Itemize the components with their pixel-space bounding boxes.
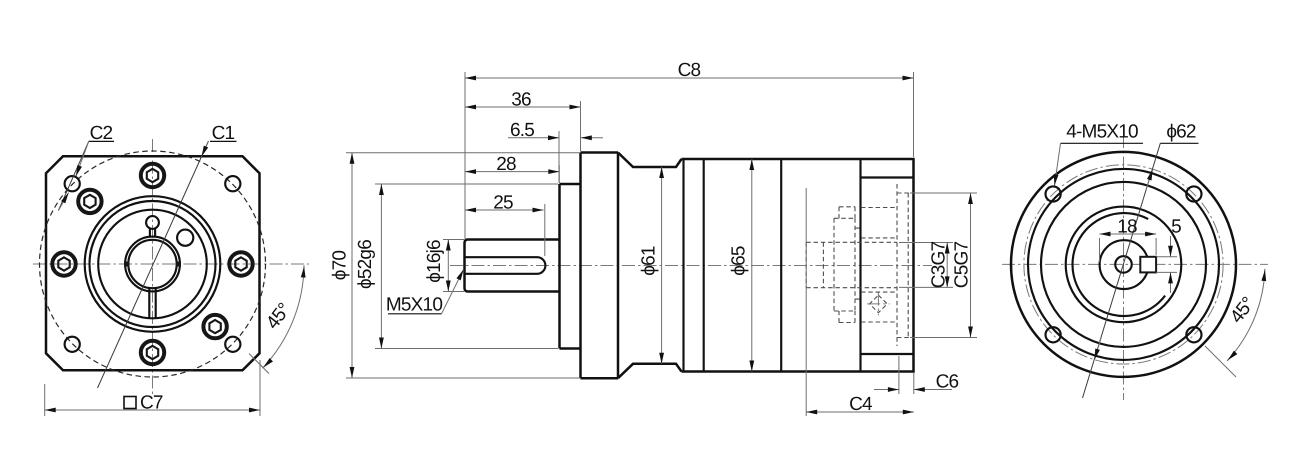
- motor shaft bore: [806, 242, 897, 287]
- dimension 6.5: [508, 120, 603, 183]
- center hole: [1115, 256, 1132, 273]
- bore chamfer tick left: [124, 262, 129, 267]
- bolt lower-right: [203, 315, 226, 338]
- axis centerline: [450, 265, 932, 267]
- bolt top: [141, 164, 164, 187]
- label C1: [210, 123, 237, 144]
- shaft keyway slot: [465, 257, 546, 274]
- bore inner r=24.2: [128, 240, 176, 288]
- bore chamfer tick right: [176, 262, 181, 267]
- mounting hole UR: [1186, 186, 1201, 201]
- dimension phi52g6: [355, 184, 558, 349]
- body division lines: [682, 159, 684, 372]
- hub circle: [1100, 240, 1149, 289]
- dimension C8: [465, 60, 914, 239]
- clamp screw (diamond): [870, 295, 888, 313]
- flange plate: [581, 153, 619, 379]
- keyway box: [1140, 257, 1156, 273]
- label 4-M5X10 with leader: [1055, 122, 1144, 186]
- label C2 with leader to corner hole: [58, 123, 114, 211]
- svg-text:C3G7: C3G7: [929, 242, 950, 289]
- bolt left: [52, 252, 75, 275]
- 45 degree dimension front view: [249, 265, 304, 373]
- output shaft: [465, 240, 560, 292]
- dimension phi65: [729, 159, 752, 372]
- bolt upper-left: [78, 190, 101, 213]
- keyway slot bottom: [148, 289, 150, 319]
- mounting hole UL: [1046, 186, 1061, 201]
- recess circle: [1028, 169, 1219, 360]
- hidden internals (dashed): [806, 184, 913, 346]
- bolt circle phi62 dash-dot: [1024, 165, 1223, 364]
- top small hole r=6.4 with neck: [146, 216, 159, 229]
- circle r=54.3: [98, 210, 207, 319]
- svg-text:ϕ52g6: ϕ52g6: [355, 240, 376, 289]
- svg-text:ϕ61: ϕ61: [639, 246, 660, 276]
- centerline vertical: [1123, 135, 1125, 400]
- mounting hole LR: [1186, 327, 1201, 342]
- svg-text:ϕ70: ϕ70: [330, 251, 351, 281]
- svg-text:ϕ65: ϕ65: [729, 246, 750, 276]
- svg-text:C7: C7: [140, 393, 163, 414]
- dimension C6: [874, 356, 959, 394]
- input recess edges: [861, 176, 914, 178]
- svg-text:36: 36: [511, 90, 531, 111]
- dimension 18: [1100, 217, 1157, 263]
- input bore C5 hidden: [897, 184, 914, 346]
- svg-text:25: 25: [493, 193, 513, 214]
- svg-text:28: 28: [496, 154, 516, 175]
- corner hole top-left: [65, 176, 80, 191]
- partial arc: [1073, 213, 1166, 316]
- diagonal section line C1: [98, 141, 209, 388]
- dimension C3G7: [899, 242, 953, 289]
- corner hole bottom-left: [65, 337, 80, 352]
- dimension phi61: [639, 167, 662, 364]
- svg-text:ϕ62: ϕ62: [1166, 122, 1196, 143]
- svg-text:C8: C8: [678, 60, 701, 81]
- svg-text:C6: C6: [936, 372, 959, 393]
- outer circle phi70: [1011, 152, 1236, 377]
- taper to neck: [618, 153, 682, 379]
- 45 degree dimension rear view: [1205, 269, 1265, 377]
- main body outline: [682, 159, 914, 372]
- bolt bottom: [141, 341, 164, 364]
- svg-text:5: 5: [1171, 217, 1181, 238]
- svg-text:C5G7: C5G7: [952, 242, 973, 289]
- pilot circle r=67.8: [85, 196, 221, 332]
- dimension square C7: [45, 360, 260, 416]
- coupling outer lines: [855, 208, 897, 323]
- centerline horizontal: [1002, 263, 1268, 265]
- centerline horizontal: [33, 263, 309, 265]
- label M5X10 with leader: [386, 270, 464, 316]
- svg-text:45°: 45°: [262, 300, 295, 334]
- label phi62 with leader diagonal: [1083, 122, 1199, 399]
- svg-text:ϕ16j6: ϕ16j6: [424, 240, 445, 283]
- svg-text:4-M5X10: 4-M5X10: [1066, 122, 1138, 143]
- dimension phi70: [330, 153, 581, 378]
- boss circle phi52: [1041, 182, 1206, 347]
- square flange outline with chamfered corners: [46, 156, 260, 370]
- bolt circle dashed (phantom) r=113: [40, 151, 266, 377]
- circle r=63: [90, 201, 216, 327]
- clamp screw notches: [839, 207, 855, 323]
- pilot boss face: [558, 184, 561, 349]
- bore outer r=27.4: [125, 237, 180, 292]
- dimension 28: [465, 154, 559, 183]
- dimension 36: [465, 90, 581, 152]
- dimension C4: [806, 188, 914, 416]
- dimension phi16j6: [424, 240, 464, 292]
- dimension C5G7: [910, 193, 977, 338]
- dimension 25: [465, 193, 545, 257]
- corner hole bottom-right: [225, 337, 240, 352]
- small pin hole upper right r=8.1: [177, 230, 193, 246]
- corner hole top-right: [225, 176, 240, 191]
- svg-text:18: 18: [1117, 217, 1137, 238]
- svg-text:M5X10: M5X10: [386, 295, 442, 316]
- bolt right: [229, 252, 252, 275]
- svg-text:C4: C4: [849, 394, 873, 415]
- mounting hole LL: [1046, 327, 1061, 342]
- dimension 5: [1156, 217, 1181, 294]
- hex socket bolts x6: [52, 164, 252, 364]
- svg-text:6.5: 6.5: [510, 120, 534, 141]
- clamp collar steps: [823, 218, 855, 311]
- centerline vertical: [152, 139, 154, 397]
- inner circle: [1066, 207, 1182, 323]
